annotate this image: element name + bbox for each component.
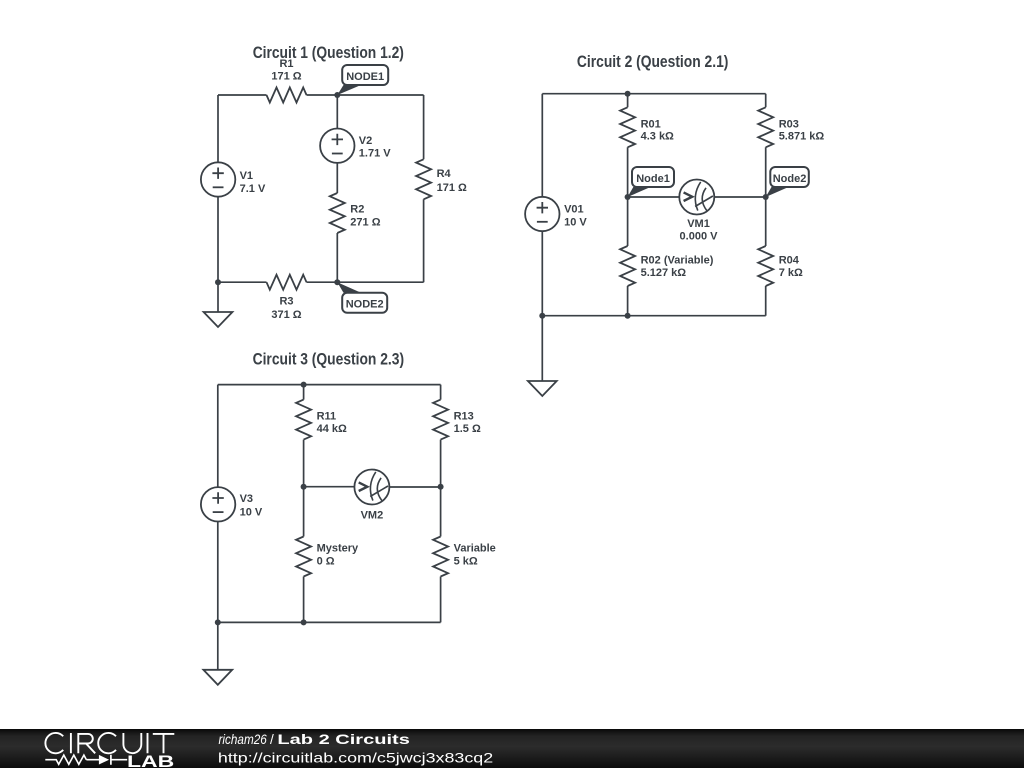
svg-text:NODE2: NODE2: [346, 299, 384, 311]
svg-text:R3: R3: [279, 295, 293, 307]
svg-text:R4: R4: [437, 168, 452, 180]
svg-text:371 Ω: 371 Ω: [271, 309, 301, 321]
svg-text:R04: R04: [779, 255, 800, 267]
svg-text:7.1 V: 7.1 V: [240, 183, 266, 195]
svg-text:R13: R13: [454, 410, 474, 422]
svg-text:V2: V2: [359, 135, 372, 147]
svg-text:VM2: VM2: [361, 510, 384, 522]
svg-text:V01: V01: [564, 203, 584, 215]
svg-text:Mystery: Mystery: [317, 543, 359, 555]
svg-text:5.871 kΩ: 5.871 kΩ: [779, 131, 825, 143]
svg-text:NODE1: NODE1: [346, 71, 384, 83]
svg-text:Circuit 1 (Question 1.2): Circuit 1 (Question 1.2): [253, 44, 404, 62]
svg-text:10 V: 10 V: [240, 507, 263, 519]
svg-text:R1: R1: [279, 58, 293, 70]
svg-text:Node1: Node1: [636, 173, 670, 185]
svg-text:5.127 kΩ: 5.127 kΩ: [641, 267, 687, 279]
svg-text:Circuit 2 (Question 2.1): Circuit 2 (Question 2.1): [577, 53, 729, 71]
svg-text:R01: R01: [641, 119, 661, 131]
svg-text:LAB: LAB: [127, 753, 174, 768]
svg-text:4.3 kΩ: 4.3 kΩ: [641, 131, 674, 143]
svg-text:0 Ω: 0 Ω: [317, 556, 335, 568]
svg-text:44 kΩ: 44 kΩ: [317, 423, 347, 435]
svg-text:V1: V1: [240, 170, 253, 182]
svg-text:7 kΩ: 7 kΩ: [779, 267, 803, 279]
svg-text:Lab 2 Circuits: Lab 2 Circuits: [277, 732, 410, 747]
svg-text:R2: R2: [350, 203, 364, 215]
svg-text:richam26: richam26: [219, 732, 268, 747]
svg-text:Variable: Variable: [454, 543, 496, 555]
svg-text:1.5 Ω: 1.5 Ω: [454, 423, 481, 435]
svg-text:http://circuitlab.com/c5jwcj3x: http://circuitlab.com/c5jwcj3x83cq2: [218, 751, 493, 766]
svg-text:R11: R11: [317, 410, 337, 422]
svg-text:VM1: VM1: [687, 218, 710, 230]
svg-text:R03: R03: [779, 119, 799, 131]
svg-text:5 kΩ: 5 kΩ: [454, 556, 478, 568]
svg-text:Node2: Node2: [773, 173, 807, 185]
svg-text:/: /: [270, 732, 274, 747]
svg-text:V3: V3: [240, 493, 253, 505]
svg-text:171 Ω: 171 Ω: [437, 182, 467, 194]
svg-text:0.000 V: 0.000 V: [680, 231, 719, 243]
svg-text:1.71 V: 1.71 V: [359, 148, 391, 160]
svg-text:R02 (Variable): R02 (Variable): [641, 255, 714, 267]
svg-text:271 Ω: 271 Ω: [350, 217, 380, 229]
svg-text:10 V: 10 V: [564, 216, 587, 228]
svg-text:171 Ω: 171 Ω: [271, 70, 301, 82]
svg-text:Circuit 3 (Question 2.3): Circuit 3 (Question 2.3): [253, 351, 405, 369]
